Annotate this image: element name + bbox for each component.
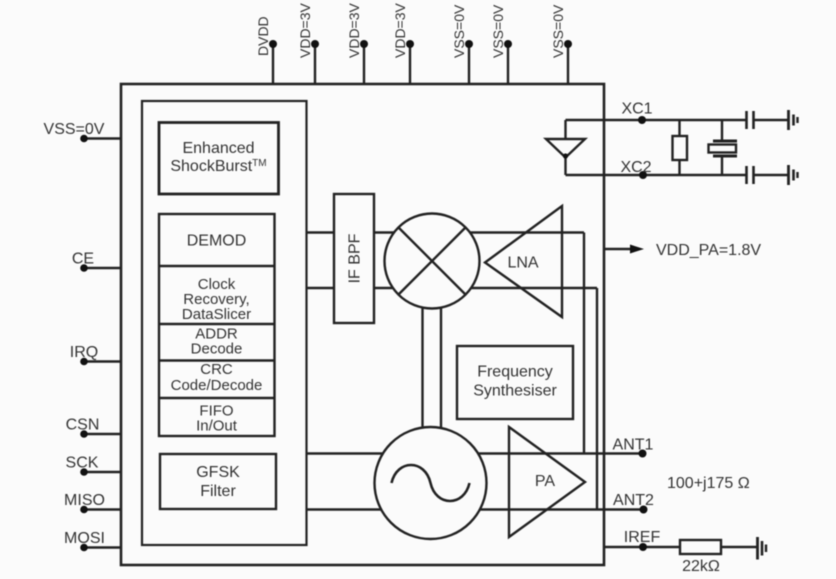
svg-text:ANT2: ANT2 bbox=[613, 492, 654, 509]
ground XC2 bbox=[787, 165, 790, 185]
wire mixer to oscillator (left vertical) bbox=[421, 260, 423, 485]
wire IREF bbox=[604, 546, 680, 548]
node dot MISO bbox=[80, 506, 88, 514]
pin DVDD wire bbox=[272, 44, 274, 84]
IF BPF block bbox=[334, 194, 374, 323]
svg-text:VDD=3V: VDD=3V bbox=[392, 2, 408, 58]
svg-text:Synthesiser: Synthesiser bbox=[473, 383, 557, 400]
resistor between XC1 and XC2 bbox=[678, 120, 680, 136]
node dot VSS2 bbox=[504, 40, 512, 48]
wire XC1 bbox=[566, 119, 746, 121]
pin VSS=0V wire 1 bbox=[468, 44, 470, 84]
wire ANT1 line from GFSK block through PA to ANT1 pin bbox=[307, 452, 643, 454]
capacitor on XC2 bbox=[745, 166, 748, 184]
svg-text:Enhanced: Enhanced bbox=[182, 140, 254, 157]
svg-text:GFSK: GFSK bbox=[196, 464, 240, 481]
svg-text:VSS=0V: VSS=0V bbox=[550, 4, 566, 58]
svg-text:Code/Decode: Code/Decode bbox=[171, 377, 263, 394]
wire IF from digital block to mixer (upper) bbox=[307, 231, 585, 233]
svg-text:In/Out: In/Out bbox=[196, 418, 238, 435]
node dot IREF bbox=[639, 543, 647, 551]
pin MOSI wire bbox=[84, 546, 122, 548]
pin CE wire bbox=[84, 267, 122, 269]
svg-text:Decode: Decode bbox=[191, 341, 243, 358]
Frequency Synthesiser block bbox=[457, 346, 573, 419]
oscillator bbox=[375, 427, 487, 539]
svg-text:100+j175 Ω: 100+j175 Ω bbox=[667, 475, 750, 492]
node dot ANT1 bbox=[639, 450, 647, 458]
svg-text:CE: CE bbox=[72, 251, 94, 268]
resistor 22k bbox=[680, 540, 721, 554]
svg-text:IF BPF: IF BPF bbox=[347, 233, 364, 283]
pin VSS=0V wire 3 bbox=[567, 44, 569, 84]
GFSK Filter block bbox=[160, 454, 276, 509]
pin VDD=3V wire 1 bbox=[314, 44, 316, 84]
node dot VDD1 bbox=[311, 40, 319, 48]
pin VDD=3V wire 3 bbox=[409, 44, 411, 84]
svg-text:SCK: SCK bbox=[66, 455, 99, 472]
node dot VSS1 bbox=[465, 40, 473, 48]
PA amplifier bbox=[509, 427, 585, 537]
node dot MOSI bbox=[80, 544, 88, 552]
svg-text:PA: PA bbox=[535, 473, 555, 490]
crystal X1 bbox=[721, 120, 723, 140]
svg-text:IREF: IREF bbox=[624, 529, 661, 546]
pin IRQ wire bbox=[84, 360, 122, 362]
mixer bbox=[385, 214, 480, 309]
svg-text:VDD_PA=1.8V: VDD_PA=1.8V bbox=[656, 242, 761, 259]
svg-text:Filter: Filter bbox=[200, 483, 236, 500]
node dot VSS3 bbox=[564, 40, 572, 48]
svg-text:22kΩ: 22kΩ bbox=[682, 558, 720, 575]
svg-text:VSS=0V: VSS=0V bbox=[490, 4, 506, 58]
svg-text:IRQ: IRQ bbox=[70, 344, 98, 361]
arrowhead VDD_PA bbox=[630, 245, 644, 254]
node dot SCK bbox=[80, 468, 88, 476]
svg-text:VDD=3V: VDD=3V bbox=[297, 2, 313, 58]
pin CSN wire bbox=[84, 433, 122, 435]
DEMOD block stack bbox=[159, 214, 275, 436]
wire vertical LNA output to ANT2 bbox=[596, 288, 598, 510]
node dot VSS left bbox=[80, 135, 88, 143]
svg-text:Frequency: Frequency bbox=[477, 364, 553, 381]
node dot VDD2 bbox=[360, 40, 368, 48]
LNA amplifier bbox=[485, 206, 562, 317]
svg-text:VSS=0V: VSS=0V bbox=[44, 121, 105, 138]
ground IREF bbox=[756, 537, 759, 560]
svg-text:DEMOD: DEMOD bbox=[187, 233, 247, 250]
svg-text:VDD=3V: VDD=3V bbox=[346, 2, 362, 58]
wire vertical LNA output to ANT1 bbox=[583, 233, 585, 455]
pin VSS=0V wire 2 bbox=[507, 44, 509, 84]
capacitor on XC1 bbox=[745, 111, 748, 129]
wire IF from digital block to mixer (lower) bbox=[307, 287, 598, 289]
svg-text:CRC: CRC bbox=[200, 361, 233, 378]
node dot VDD3 bbox=[406, 40, 414, 48]
crystal oscillator inverter bbox=[564, 120, 566, 139]
pin VSS=0V left wire bbox=[84, 137, 122, 139]
node dot IRQ bbox=[80, 358, 88, 366]
node dot CSN bbox=[80, 430, 88, 438]
svg-text:XC2: XC2 bbox=[620, 159, 651, 176]
wire mixer to oscillator (right vertical) bbox=[440, 260, 442, 485]
svg-text:MOSI: MOSI bbox=[64, 530, 105, 547]
svg-text:LNA: LNA bbox=[507, 255, 538, 272]
ground XC1 bbox=[787, 110, 790, 130]
node dot ANT2 bbox=[640, 506, 648, 514]
wire ANT2 line from GFSK block through PA to ANT2 pin bbox=[307, 508, 644, 510]
svg-text:ANT1: ANT1 bbox=[613, 437, 654, 454]
pin MISO wire bbox=[84, 508, 122, 510]
svg-text:DVDD: DVDD bbox=[255, 16, 271, 56]
wire XC2 bbox=[566, 174, 746, 176]
digital logic block bbox=[142, 101, 307, 545]
pin VDD=3V wire 2 bbox=[363, 44, 365, 84]
svg-text:XC1: XC1 bbox=[621, 101, 652, 118]
svg-text:DataSlicer: DataSlicer bbox=[182, 306, 251, 323]
wire VDD_PA output bbox=[604, 248, 633, 250]
node dot inverter output bbox=[563, 153, 568, 158]
Enhanced ShockBurst block bbox=[159, 123, 279, 195]
node dot CE bbox=[80, 264, 88, 272]
svg-text:MISO: MISO bbox=[64, 492, 105, 509]
chip outline U1 bbox=[121, 84, 604, 565]
svg-text:CSN: CSN bbox=[66, 417, 100, 434]
node dot XC1 bbox=[638, 116, 646, 124]
node dot XC2 bbox=[639, 171, 647, 179]
svg-text:VSS=0V: VSS=0V bbox=[451, 4, 467, 58]
pin SCK wire bbox=[84, 471, 122, 473]
node dot DVDD bbox=[269, 40, 277, 48]
